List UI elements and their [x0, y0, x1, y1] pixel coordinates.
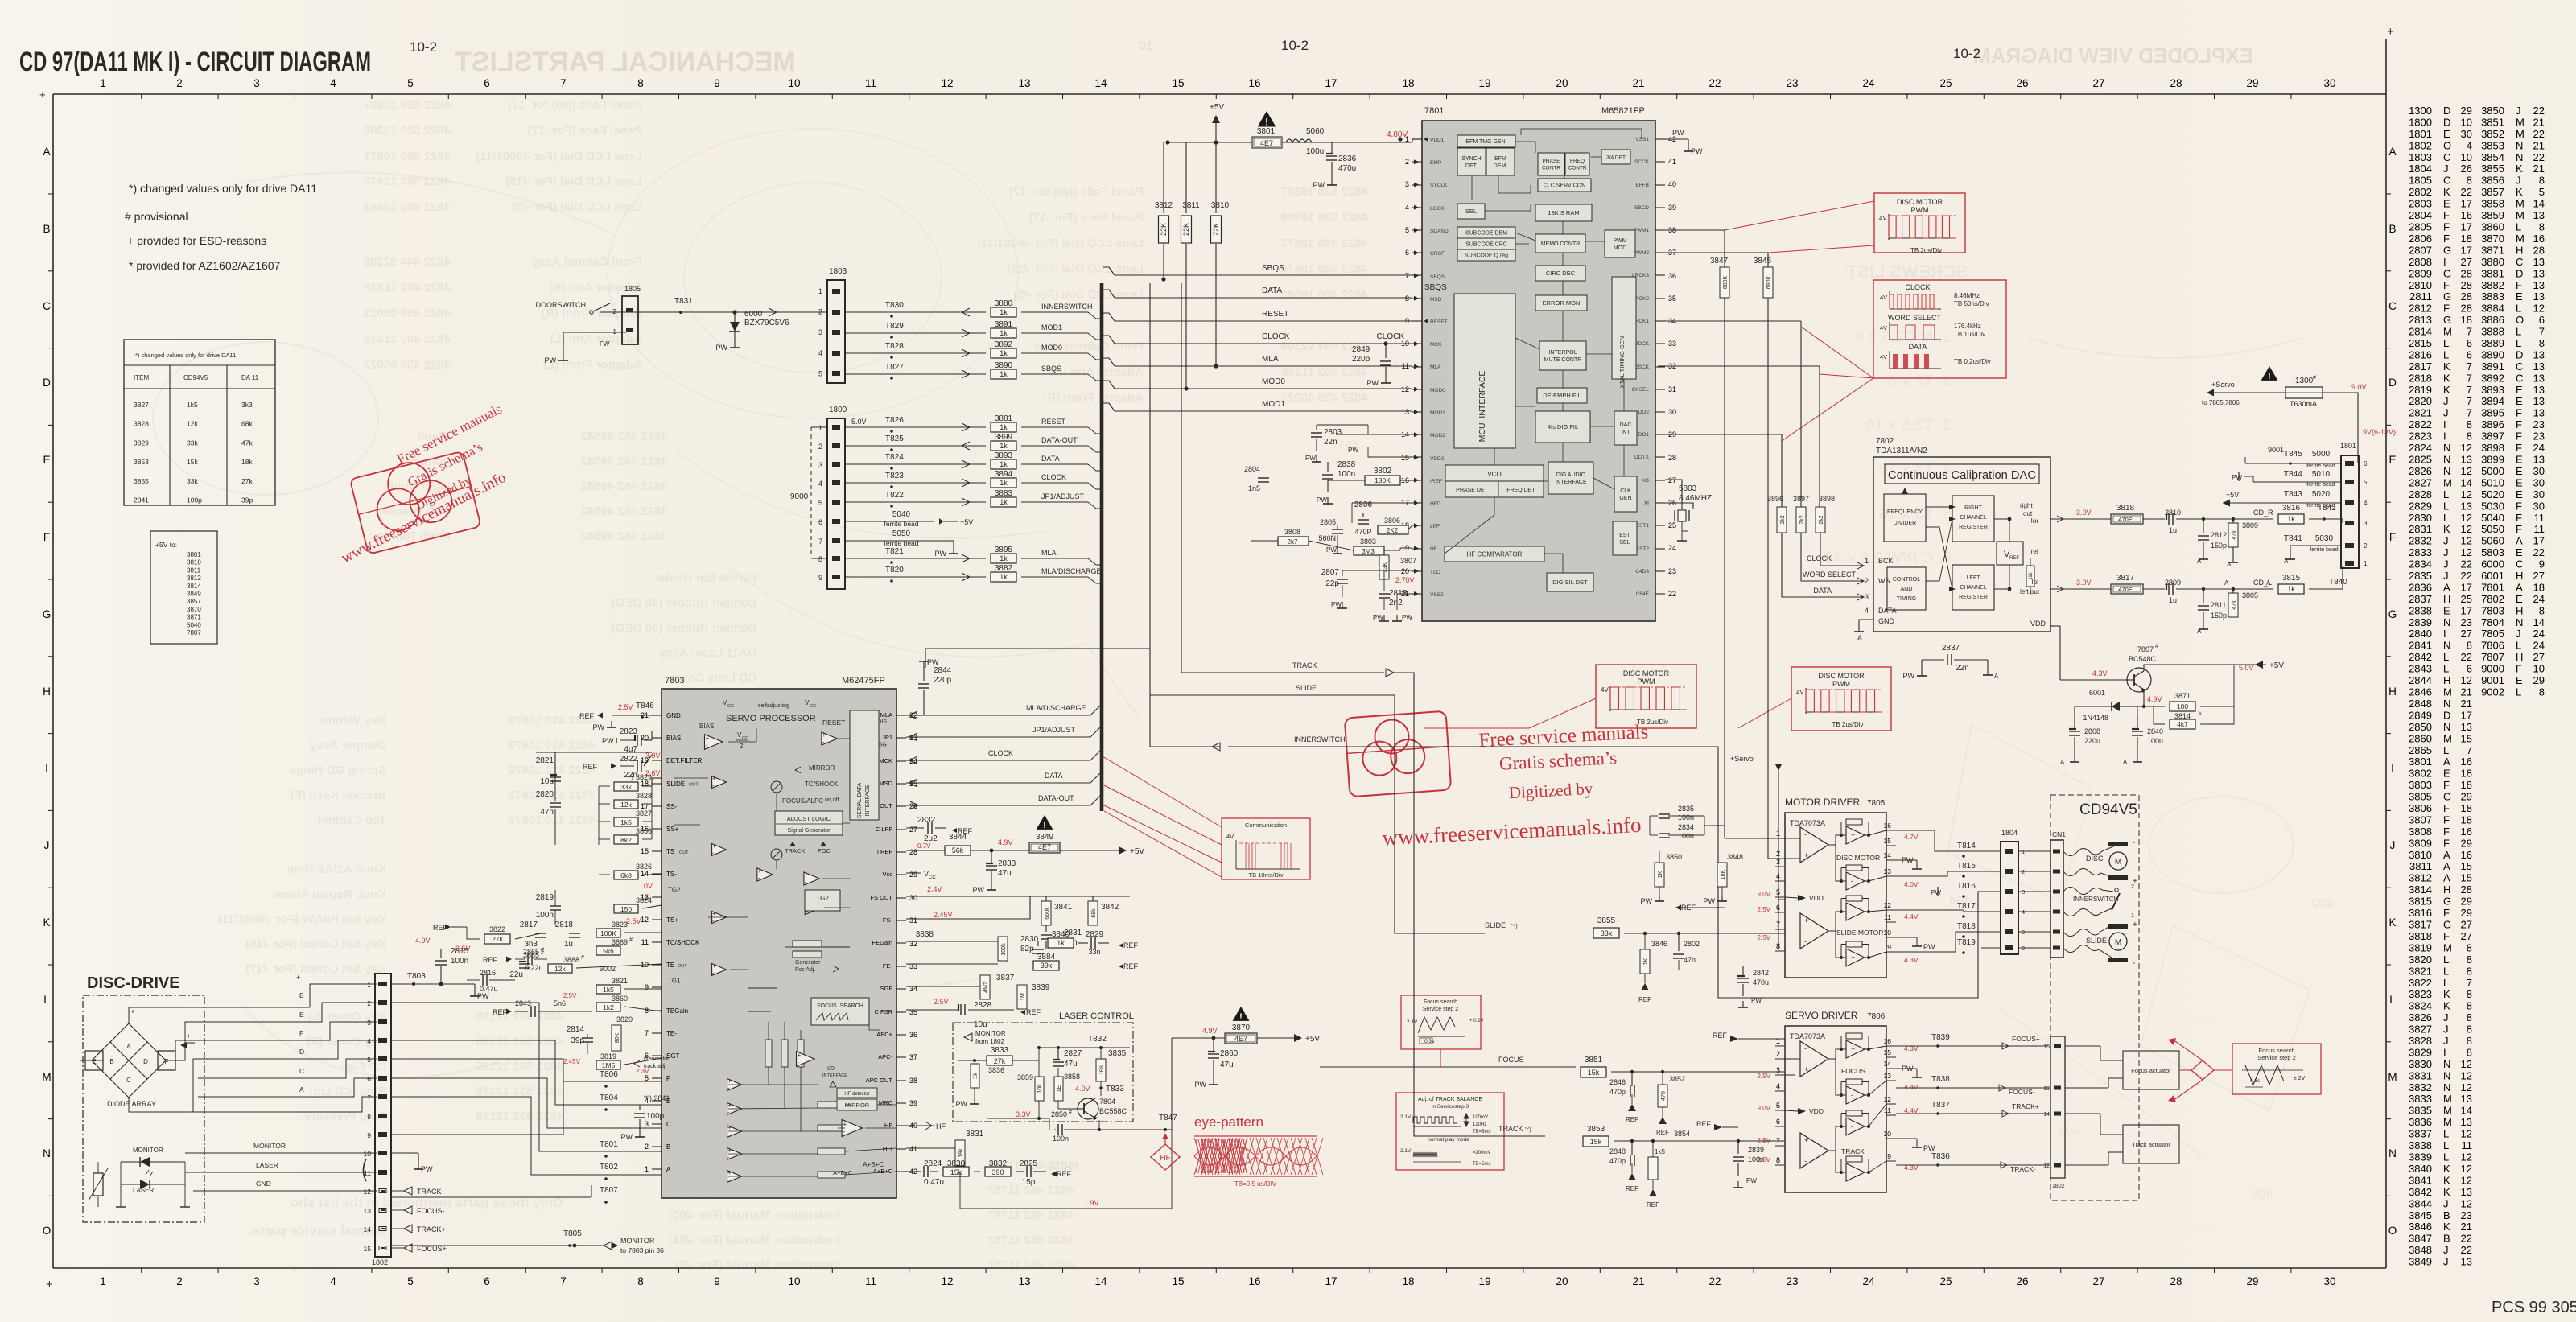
- svg-text:TDA7073A: TDA7073A: [1790, 819, 1825, 827]
- svg-text:3831: 3831: [966, 1130, 984, 1139]
- svg-text:18: 18: [2461, 813, 2472, 826]
- svg-text:M: M: [2443, 941, 2452, 953]
- svg-text:FREQUENCY: FREQUENCY: [1887, 509, 1923, 515]
- svg-text:D: D: [299, 1048, 304, 1056]
- svg-text:8: 8: [637, 1275, 644, 1287]
- svg-text:F: F: [2516, 512, 2522, 524]
- svg-text:80K: 80K: [615, 1032, 620, 1043]
- svg-text:2.4V: 2.4V: [927, 885, 942, 893]
- svg-text:T807: T807: [600, 1186, 618, 1195]
- svg-text:1800: 1800: [2409, 116, 2432, 128]
- 7801 block INTERPOL MUTE CONTR: [1539, 341, 1586, 370]
- svg-text:TB 2us/Div: TB 2us/Div: [1910, 247, 1942, 254]
- svg-text:6: 6: [2539, 314, 2545, 326]
- svg-text:Adaptor Front (L): Adaptor Front (L): [543, 358, 642, 372]
- svg-text:470: 470: [1661, 1091, 1667, 1101]
- svg-text:2804: 2804: [1244, 465, 1260, 473]
- svg-text:2820: 2820: [2409, 395, 2432, 407]
- svg-text:BIAS: BIAS: [666, 735, 681, 742]
- 7801 block MCU INTERFACE: [1454, 294, 1515, 448]
- svg-text:GND: GND: [1878, 617, 1895, 625]
- svg-text:30: 30: [2533, 476, 2545, 488]
- svg-text:3819: 3819: [600, 1052, 616, 1060]
- warning triangle 3801: [1258, 111, 1276, 126]
- svg-text:1800: 1800: [829, 406, 847, 414]
- svg-text:-: -: [712, 970, 715, 977]
- svg-text:2825: 2825: [1020, 1159, 1038, 1168]
- svg-text:+Servo: +Servo: [1730, 755, 1754, 763]
- ground PW T846: [611, 721, 612, 727]
- svg-text:D: D: [2443, 116, 2450, 128]
- svg-text:2812: 2812: [2211, 531, 2227, 539]
- REF arrow motor driver: [1675, 905, 1681, 911]
- svg-text:3835: 3835: [2409, 1105, 2432, 1117]
- wire T847 column: [1171, 1038, 1173, 1130]
- svg-text:3: 3: [253, 77, 260, 89]
- svg-text:3870: 3870: [2481, 233, 2504, 245]
- svg-text:FE-: FE-: [883, 962, 893, 970]
- svg-text:PW: PW: [1751, 997, 1762, 1004]
- svg-text:VDD: VDD: [1809, 894, 1824, 902]
- svg-text:3853: 3853: [134, 458, 149, 466]
- svg-text:1k: 1k: [2287, 585, 2295, 593]
- DAC RIGHT CHANNEL REGISTER box: [1952, 496, 1994, 542]
- svg-text:CLOCK: CLOCK: [988, 749, 1013, 757]
- svg-text:4E7: 4E7: [1234, 1035, 1247, 1043]
- +5V arrow at 5020: [2223, 500, 2230, 507]
- svg-text:13: 13: [2533, 209, 2545, 221]
- svg-text:13: 13: [1018, 77, 1030, 89]
- svg-text:DET.FILTER: DET.FILTER: [666, 757, 703, 764]
- svg-text:3.0V: 3.0V: [2076, 509, 2092, 517]
- svg-text:DIG SIL DET: DIG SIL DET: [1552, 579, 1588, 586]
- svg-text:T826: T826: [885, 416, 904, 425]
- 7801 block EFM DEM: [1486, 148, 1515, 175]
- 7803 I/D interface: [797, 1052, 815, 1067]
- svg-text:2850: 2850: [2409, 721, 2432, 733]
- svg-text:1802: 1802: [372, 1258, 388, 1266]
- svg-text:G: G: [2443, 314, 2451, 326]
- svg-text:3845: 3845: [1754, 257, 1772, 266]
- svg-text:8: 8: [2467, 1000, 2472, 1012]
- svg-text:B: B: [109, 1058, 113, 1065]
- svg-text:L: L: [2516, 337, 2521, 349]
- svg-text:+: +: [727, 1124, 732, 1131]
- wire 7807 base: [2060, 679, 2125, 681]
- svg-text:6001: 6001: [2481, 570, 2504, 582]
- svg-text:MONITOR: MONITOR: [253, 1142, 286, 1150]
- svg-text:DET.: DET.: [1465, 163, 1478, 169]
- svg-text:ITEM: ITEM: [134, 374, 149, 381]
- svg-text:3: 3: [253, 1275, 260, 1287]
- svg-text:+: +: [843, 1121, 847, 1128]
- svg-text:MOD2: MOD2: [1430, 433, 1445, 439]
- svg-text:150p: 150p: [2211, 542, 2227, 550]
- svg-text:+ provided for ESD-reasons: + provided for ESD-reasons: [127, 234, 266, 247]
- svg-text:1K: 1K: [1643, 958, 1649, 965]
- svg-text:18K: 18K: [1721, 869, 1726, 879]
- 7801 block DAC INT: [1614, 411, 1637, 445]
- svg-text:TDA7073A: TDA7073A: [1790, 1032, 1825, 1040]
- svg-text:36: 36: [1668, 272, 1676, 280]
- svg-text:I: I: [45, 762, 48, 774]
- svg-text:24: 24: [1862, 77, 1875, 89]
- svg-text:3884: 3884: [2481, 303, 2504, 315]
- resistor 3838 100k: [998, 937, 1008, 961]
- svg-text:8: 8: [645, 1007, 649, 1015]
- svg-text:O: O: [2516, 314, 2524, 326]
- svg-text:PW: PW: [935, 550, 947, 558]
- 7801 block PHASE CONTR: [1538, 153, 1564, 175]
- svg-text:4: 4: [2467, 139, 2472, 151]
- svg-text:7: 7: [367, 1093, 371, 1102]
- svg-text:6: 6: [2467, 348, 2472, 360]
- svg-text:5: 5: [818, 499, 822, 507]
- svg-text:T840: T840: [2329, 578, 2347, 587]
- svg-text:220p: 220p: [1352, 355, 1370, 364]
- svg-text:TB=5ms: TB=5ms: [1473, 1162, 1491, 1167]
- svg-text:5040: 5040: [892, 510, 911, 519]
- svg-text:'*'): '*'): [1525, 1127, 1531, 1133]
- svg-text:2842: 2842: [2409, 651, 2432, 663]
- svg-text:4822 528 10308: 4822 528 10308: [1281, 211, 1368, 224]
- svg-text:2802: 2802: [1684, 940, 1700, 948]
- svg-text:1: 1: [645, 1165, 649, 1173]
- svg-text:14: 14: [2533, 198, 2545, 210]
- svg-text:CC: CC: [727, 704, 734, 709]
- svg-text:T803: T803: [407, 972, 426, 981]
- Track actuator box: [2123, 1125, 2179, 1163]
- svg-text:O: O: [2388, 1225, 2397, 1237]
- svg-text:28: 28: [2461, 279, 2472, 291]
- red box Focus search service step 2 center: [1401, 995, 1481, 1049]
- svg-text:3856: 3856: [636, 827, 652, 835]
- 7801 block 4fs DIG FIL: [1535, 411, 1590, 443]
- svg-text:3801: 3801: [187, 551, 201, 558]
- svg-text:O: O: [2443, 139, 2451, 151]
- svg-text:5020: 5020: [2312, 490, 2331, 499]
- svg-text:2833: 2833: [998, 859, 1016, 868]
- svg-text:2846: 2846: [2409, 686, 2432, 698]
- svg-text:TIMING: TIMING: [1897, 596, 1917, 602]
- svg-text:SERVO DRIVER: SERVO DRIVER: [1785, 1010, 1858, 1021]
- svg-text:+ 0.2V: + 0.2V: [1469, 1019, 1484, 1023]
- svg-text:+: +: [805, 871, 809, 879]
- svg-text:+: +: [712, 910, 716, 917]
- svg-text:4822 462 49582: 4822 462 49582: [581, 455, 668, 468]
- svg-text:A: A: [1857, 634, 1862, 642]
- resistor 3845 680K: [1763, 267, 1773, 298]
- svg-text:3870: 3870: [1232, 1023, 1251, 1032]
- svg-text:H: H: [2516, 651, 2523, 663]
- svg-text:L: L: [2516, 640, 2521, 652]
- svg-text:INT: INT: [1621, 430, 1630, 435]
- svg-text:T819: T819: [1957, 938, 1976, 947]
- svg-text:12: 12: [1401, 385, 1409, 393]
- red fan lines middle PWM boxes: [1424, 698, 1791, 728]
- svg-text:12: 12: [2461, 1128, 2472, 1140]
- svg-text:9.0V: 9.0V: [1758, 1105, 1771, 1112]
- disc drive grounds: [120, 1162, 122, 1207]
- svg-text:2.5V: 2.5V: [934, 998, 949, 1006]
- svg-text:3829: 3829: [2409, 1047, 2432, 1059]
- svg-text:8.46MHZ: 8.46MHZ: [1679, 494, 1712, 503]
- svg-text:4V: 4V: [1880, 324, 1887, 332]
- 7806 input opamp focus: [1800, 1041, 1828, 1077]
- wire A+B+C pin42 row: [906, 1171, 916, 1172]
- svg-text:-: -: [1851, 1122, 1853, 1130]
- svg-text:2840: 2840: [2409, 628, 2432, 640]
- svg-text:REF: REF: [1057, 1170, 1072, 1178]
- svg-text:'*'): '*'): [627, 776, 633, 781]
- svg-text:7: 7: [2467, 977, 2472, 989]
- svg-text:3816: 3816: [2409, 907, 2432, 919]
- wire T838 FOCUS-: [1896, 1087, 2049, 1089]
- svg-text:+: +: [46, 1278, 53, 1291]
- svg-text:CN1: CN1: [2052, 830, 2066, 838]
- svg-text:T828: T828: [885, 342, 904, 351]
- svg-text:Key Volume: Key Volume: [318, 714, 386, 727]
- svg-text:+: +: [727, 1102, 732, 1109]
- svg-text:CHANNEL: CHANNEL: [1960, 585, 1987, 591]
- svg-text:B: B: [299, 991, 304, 999]
- svg-text:L: L: [2389, 994, 2396, 1006]
- svg-text:3836: 3836: [2409, 1116, 2432, 1128]
- svg-text:Key Set Contol (For -/15): Key Set Contol (For -/15): [245, 937, 386, 951]
- svg-text:2.1V: 2.1V: [1400, 1114, 1412, 1120]
- svg-text:5: 5: [2539, 186, 2545, 198]
- svg-text:K: K: [2443, 988, 2450, 1000]
- svg-text:SLIDE: SLIDE: [666, 780, 685, 788]
- svg-text:H: H: [2516, 570, 2523, 582]
- wire T842 to 1801 pin3: [2342, 519, 2343, 523]
- svg-text:F: F: [2443, 233, 2450, 245]
- svg-text:-: -: [1851, 877, 1853, 885]
- svg-text:M: M: [2443, 1093, 2452, 1105]
- svg-text:7: 7: [1776, 920, 1780, 929]
- red diamond right actuator: [2191, 1060, 2214, 1080]
- svg-text:6: 6: [2467, 663, 2472, 675]
- svg-text:3829: 3829: [636, 773, 652, 781]
- svg-text:H: H: [2443, 883, 2450, 896]
- svg-text:TRACK+: TRACK+: [417, 1225, 446, 1233]
- svg-text:14: 14: [1094, 77, 1107, 89]
- svg-text:TC/SHOCK: TC/SHOCK: [805, 780, 839, 788]
- svg-text:DIODE ARRAY: DIODE ARRAY: [107, 1100, 156, 1108]
- svg-text:12k: 12k: [620, 801, 632, 809]
- wire HF pin19: [1399, 548, 1401, 550]
- svg-text:0.3s: 0.3s: [2250, 1078, 2261, 1084]
- svg-text:12: 12: [2461, 1174, 2472, 1186]
- svg-text:47u: 47u: [1220, 1060, 1234, 1069]
- svg-text:1k: 1k: [999, 308, 1008, 316]
- svg-text:REF: REF: [1696, 1120, 1712, 1128]
- svg-text:K: K: [2443, 523, 2450, 535]
- svg-text:T630mA: T630mA: [2290, 400, 2317, 408]
- svg-text:MCK: MCK: [879, 757, 892, 764]
- wire HF pin40: [906, 1125, 934, 1126]
- svg-text:2828: 2828: [974, 1001, 992, 1010]
- svg-text:5040: 5040: [2481, 512, 2504, 524]
- svg-text:2849: 2849: [1352, 345, 1370, 354]
- svg-text:L: L: [2443, 500, 2449, 512]
- svg-text:F: F: [2516, 523, 2522, 535]
- svg-text:1: 1: [818, 424, 822, 432]
- svg-text:INNERSWITCH: INNERSWITCH: [1294, 735, 1346, 743]
- svg-text:ferrite bead: ferrite bead: [2306, 482, 2335, 488]
- svg-text:PW: PW: [956, 1100, 968, 1108]
- svg-text:2821: 2821: [536, 756, 554, 765]
- svg-text:RIGHT: RIGHT: [1964, 505, 1983, 511]
- svg-text:1u: 1u: [564, 940, 573, 949]
- svg-text:L: L: [2516, 221, 2521, 233]
- HF diamond: [1151, 1144, 1180, 1170]
- wire T836 TRACK-: [1896, 1164, 2049, 1166]
- warning triangle 3870: [1233, 1007, 1250, 1021]
- svg-text:1802: 1802: [2409, 139, 2432, 151]
- svg-text:3849: 3849: [1036, 833, 1054, 842]
- svg-text:T831: T831: [674, 297, 693, 306]
- svg-text:Panel Face (For -17): Panel Face (For -17): [1028, 211, 1144, 224]
- svg-text:PW: PW: [2232, 474, 2242, 481]
- svg-text:E: E: [2516, 488, 2523, 500]
- svg-text:+: +: [712, 775, 716, 782]
- svg-text:23: 23: [2461, 616, 2472, 628]
- svg-text:E: E: [2516, 454, 2523, 466]
- svg-text:3881: 3881: [2481, 267, 2504, 279]
- 7801 block SEL: [1457, 204, 1485, 219]
- svg-text:2809: 2809: [2409, 267, 2432, 279]
- svg-text:19: 19: [1478, 1275, 1490, 1287]
- svg-text:3: 3: [645, 1120, 649, 1128]
- svg-text:+5V: +5V: [1210, 103, 1224, 112]
- 7801 block PWM MOD: [1605, 230, 1635, 257]
- svg-text:G: G: [2443, 919, 2451, 931]
- svg-text:2860: 2860: [2409, 732, 2432, 744]
- svg-text:6: 6: [2467, 337, 2472, 349]
- svg-text:3860: 3860: [612, 995, 628, 1003]
- svg-text:3817: 3817: [2116, 574, 2135, 583]
- svg-text:A: A: [2443, 581, 2450, 593]
- svg-text:TG2: TG2: [668, 887, 681, 894]
- svg-text:MONITOR: MONITOR: [133, 1147, 163, 1154]
- svg-text:EMP: EMP: [1430, 160, 1441, 166]
- IC 7803 left pins: [641, 711, 703, 1173]
- svg-text:10: 10: [2461, 151, 2472, 163]
- svg-text:1k: 1k: [1057, 939, 1065, 947]
- svg-text:3846: 3846: [2409, 1221, 2432, 1233]
- svg-text:BIAS: BIAS: [699, 723, 714, 730]
- svg-text:D: D: [2516, 348, 2523, 360]
- svg-text:K: K: [2516, 163, 2523, 175]
- svg-text:EFFB: EFFB: [1635, 183, 1649, 188]
- svg-text:4: 4: [1405, 204, 1409, 212]
- svg-text:A: A: [2284, 558, 2289, 565]
- svg-text:C: C: [2516, 360, 2523, 373]
- svg-text:PW: PW: [1348, 447, 1358, 454]
- svg-text:3815: 3815: [2282, 574, 2301, 583]
- svg-text:PHASE DET: PHASE DET: [1456, 488, 1488, 493]
- wire FEGain pin32: [906, 941, 998, 942]
- svg-text:16: 16: [2461, 826, 2472, 838]
- svg-text:9002: 9002: [2481, 686, 2504, 698]
- svg-text:A: A: [2227, 561, 2232, 568]
- svg-text:F: F: [2516, 279, 2522, 291]
- svg-text:Generator: Generator: [795, 960, 821, 966]
- svg-text:176.4kHz: 176.4kHz: [1954, 323, 1981, 330]
- svg-text:-: -: [1804, 830, 1807, 838]
- svg-text:SLIDE: SLIDE: [2086, 937, 2107, 945]
- svg-text:E: E: [2516, 290, 2523, 303]
- svg-text:1u: 1u: [2169, 526, 2177, 534]
- svg-text:to 7805,7806: to 7805,7806: [2202, 399, 2240, 406]
- svg-text:12: 12: [2461, 442, 2472, 454]
- svg-text:3827: 3827: [134, 401, 149, 409]
- svg-text:16: 16: [1248, 77, 1260, 89]
- svg-text:7: 7: [2539, 326, 2545, 338]
- svg-text:2k2: 2k2: [1819, 515, 1824, 524]
- svg-text:DSCK: DSCK: [1634, 364, 1650, 370]
- svg-text:10: 10: [1884, 1130, 1892, 1138]
- svg-text:5: 5: [407, 1275, 414, 1287]
- svg-text:30: 30: [1668, 408, 1676, 416]
- svg-text:TS+: TS+: [666, 916, 678, 924]
- svg-text:+: +: [822, 731, 826, 739]
- svg-text:1. M C2.5 x 8: 1. M C2.5 x 8: [1855, 328, 1952, 346]
- svg-text:4fs DIG FIL: 4fs DIG FIL: [1548, 423, 1578, 430]
- svg-text:2803: 2803: [1324, 428, 1342, 437]
- bottom ruler numbers: [100, 1275, 2335, 1287]
- svg-text:8: 8: [2467, 965, 2472, 977]
- svg-text:27: 27: [2533, 651, 2545, 663]
- svg-text:2.1V: 2.1V: [1407, 1019, 1418, 1025]
- 7801 block 3/4 DET: [1601, 150, 1630, 164]
- svg-text:17: 17: [2461, 198, 2472, 210]
- svg-text:M: M: [2443, 326, 2452, 338]
- svg-text:GEN: GEN: [1619, 496, 1631, 501]
- svg-text:DATA-OUT: DATA-OUT: [1038, 794, 1074, 802]
- svg-text:16: 16: [1248, 1275, 1260, 1287]
- svg-text:F: F: [2443, 209, 2450, 221]
- svg-text:10: 10: [1884, 929, 1892, 937]
- svg-text:A: A: [2443, 756, 2450, 768]
- svg-text:3858: 3858: [1064, 1073, 1080, 1081]
- svg-text:12: 12: [2461, 1058, 2472, 1070]
- svg-text:2808: 2808: [2409, 256, 2432, 268]
- svg-text:I: I: [2391, 762, 2394, 774]
- svg-text:13: 13: [2461, 721, 2472, 733]
- svg-text:3844: 3844: [2409, 1197, 2432, 1209]
- svg-text:FOCUS: FOCUS: [1498, 1056, 1524, 1064]
- svg-text:DAC: DAC: [1620, 422, 1632, 428]
- svg-text:11: 11: [2534, 523, 2545, 535]
- IC 7803 right pins: [866, 711, 917, 1176]
- svg-text:100n: 100n: [1678, 813, 1694, 822]
- svg-text:C: C: [43, 300, 51, 312]
- svg-text:B: B: [666, 1143, 670, 1151]
- svg-text:Iol: Iol: [2032, 579, 2039, 586]
- svg-text:3857: 3857: [2481, 186, 2504, 198]
- svg-text:4822 402 11338: 4822 402 11338: [364, 281, 451, 294]
- IC U7803 M62475FP servo processor: [662, 689, 896, 1198]
- svg-text:5010: 5010: [2481, 476, 2504, 488]
- red text free service manuals center: [1377, 721, 1654, 850]
- svg-text:12: 12: [2461, 1163, 2472, 1175]
- svg-text:13: 13: [2533, 454, 2545, 466]
- svg-text:Service step 2: Service step 2: [2257, 1054, 2296, 1061]
- svg-text:PW: PW: [1317, 496, 1327, 504]
- red box CLOCK WORD SELECT DATA scope: [1873, 280, 2006, 378]
